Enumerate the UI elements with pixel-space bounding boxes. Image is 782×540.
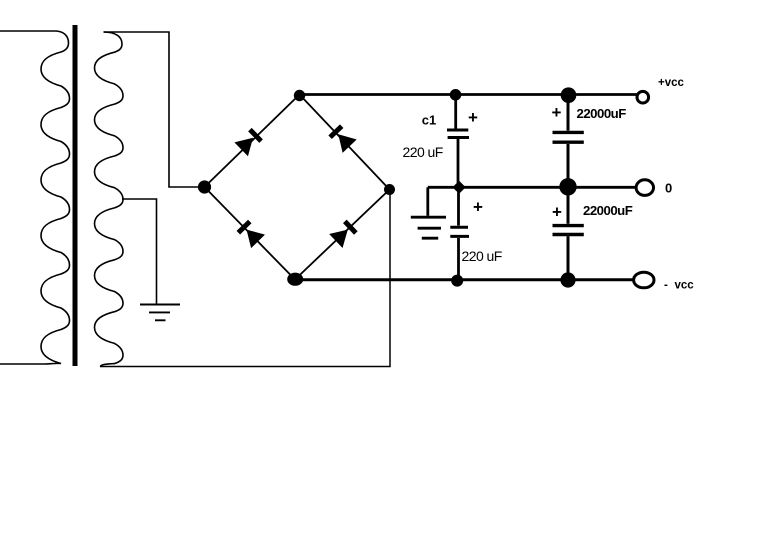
capacitor C2 top lead: [457, 187, 460, 226]
ground GND1: [140, 305, 180, 321]
diode D1 (AC1 to +): [234, 127, 264, 157]
capacitor C1 bottom lead: [457, 139, 460, 187]
svg-text:0: 0: [665, 180, 672, 195]
node bottom rail / C4: [560, 272, 575, 287]
wire secondary bottom to bridge AC2: [100, 190, 390, 367]
wire secondary center tap to ground: [122, 199, 157, 304]
capacitor C3 22000uF top lead: [567, 95, 570, 131]
bottom rail -vcc wire: [295, 278, 633, 281]
diode D3 (- to AC1): [235, 219, 265, 249]
transformer T1 secondary winding: [95, 32, 124, 367]
capacitor C1 plates: [447, 129, 468, 132]
node top rail / C3: [561, 87, 577, 103]
svg-text:+: +: [552, 203, 562, 222]
svg-text:+: +: [468, 108, 478, 127]
capacitor C2 bottom lead: [457, 238, 460, 280]
transformer T1 primary winding: [41, 31, 70, 364]
svg-text:+: +: [473, 197, 483, 216]
diode D4 (- to AC2): [329, 218, 359, 248]
wire secondary top to bridge AC1: [104, 32, 199, 187]
capacitor C4 22000uF top lead: [567, 187, 570, 224]
svg-text:c1: c1: [422, 112, 436, 127]
bridge diagonal wire T-R: [300, 95, 390, 190]
mid rail 0V wire: [428, 186, 636, 189]
capacitor C3 bottom lead: [567, 144, 570, 187]
svg-text:-vcc: -vcc: [664, 280, 694, 292]
transformer T1 core: [73, 25, 78, 366]
node bridge bottom vertex: [287, 273, 303, 286]
svg-text:+: +: [552, 103, 562, 122]
svg-text:+vcc: +vcc: [658, 77, 685, 89]
bridge diagonal wire B-R: [295, 190, 390, 280]
diode D2 (AC2 to +): [327, 123, 357, 153]
capacitor C4 plates: [553, 224, 584, 227]
capacitor C1 top lead: [454, 95, 457, 129]
capacitor C3 plates: [553, 131, 584, 134]
node top rail / C1: [450, 89, 462, 101]
terminal +vcc: [637, 91, 649, 103]
node bridge left vertex: [198, 180, 211, 193]
svg-text:220 uF: 220 uF: [462, 248, 502, 264]
svg-text:22000uF: 22000uF: [577, 106, 627, 121]
ground GND2: [411, 217, 446, 238]
svg-text:22000uF: 22000uF: [583, 203, 633, 218]
transformer T1 primary bottom lead: [0, 363, 45, 365]
terminal 0: [636, 180, 653, 196]
node mid rail / C3-C4 junction: [559, 178, 576, 195]
capacitor C2 plates: [450, 226, 468, 229]
terminal -vcc: [634, 272, 654, 288]
svg-text:220 uF: 220 uF: [403, 144, 443, 160]
node mid rail / C1-C2 junction: [453, 181, 466, 194]
bridge diagonal wire L-T: [205, 95, 300, 188]
node bridge top vertex: [294, 90, 305, 101]
node bottom rail / C2: [451, 275, 463, 287]
bridge diagonal wire L-B: [205, 187, 296, 280]
top rail +vcc wire: [300, 93, 637, 96]
transformer T1 primary top lead: [0, 30, 56, 32]
mid rail stub to ground: [426, 187, 429, 216]
capacitor C4 bottom lead: [567, 236, 570, 280]
node bridge right vertex: [384, 184, 395, 195]
